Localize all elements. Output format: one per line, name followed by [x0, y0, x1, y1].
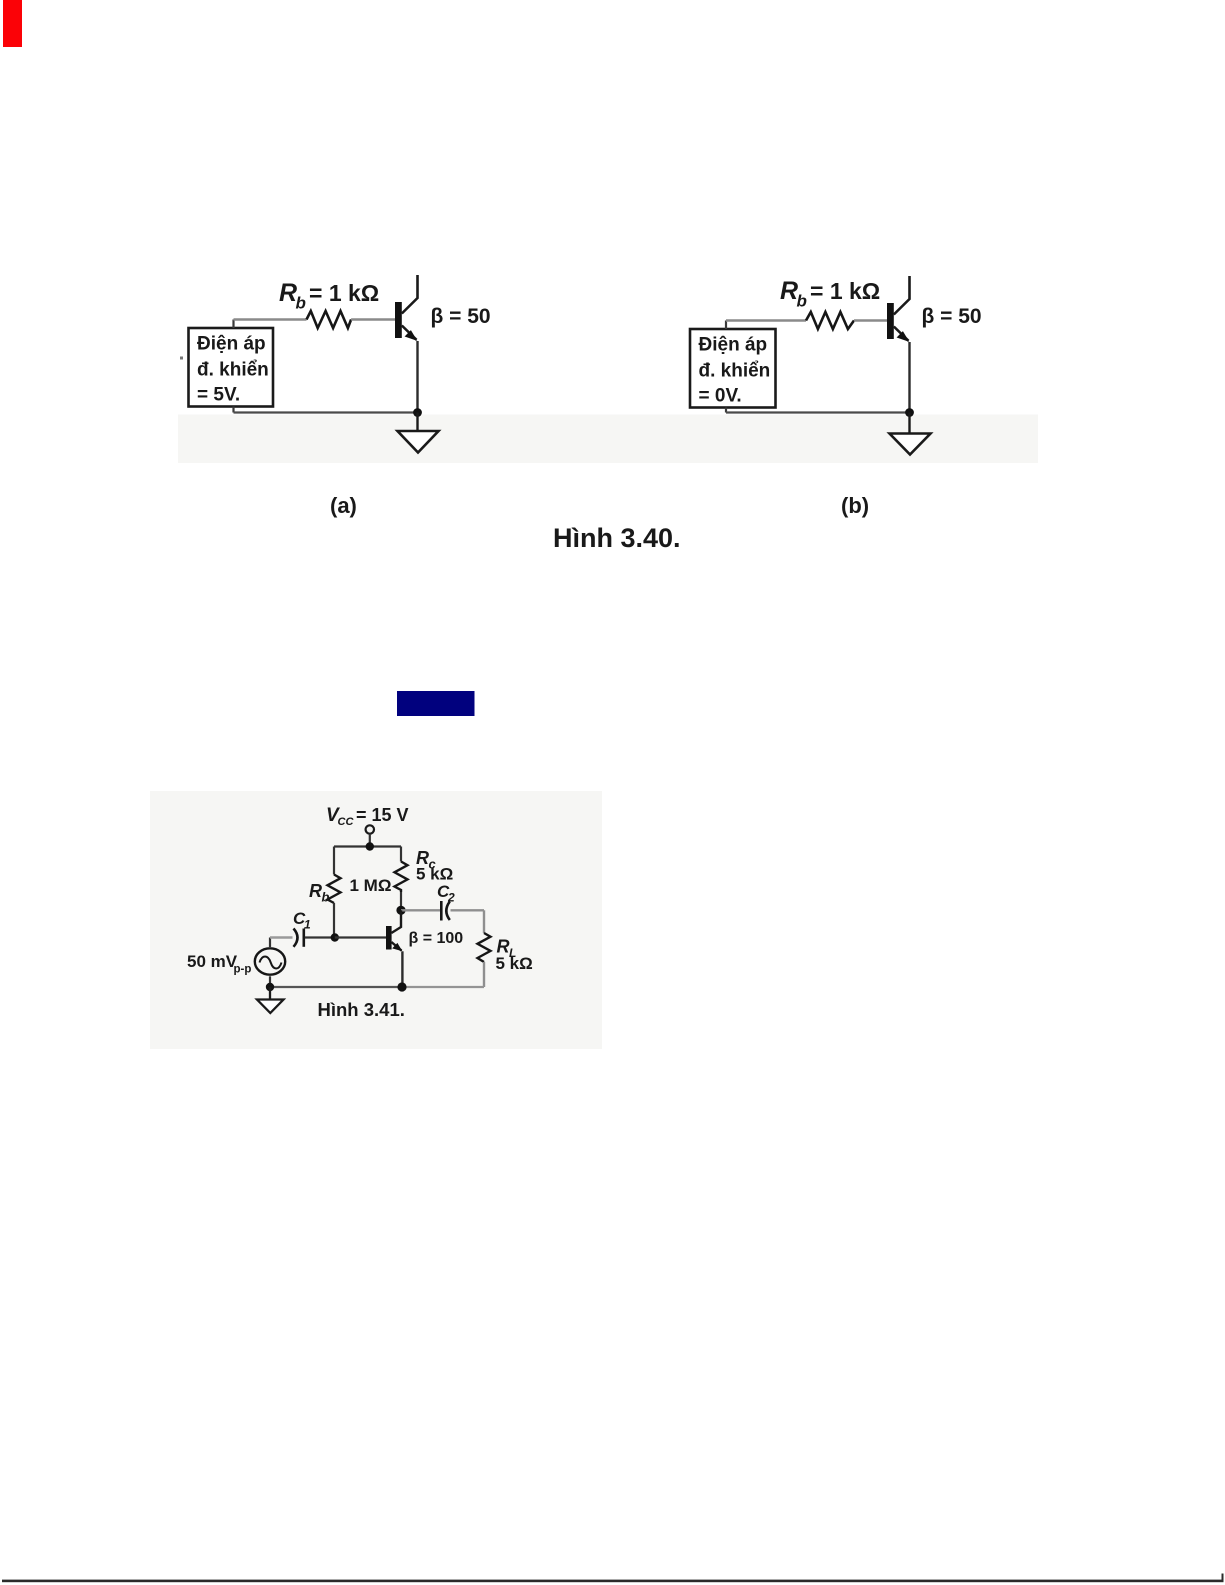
transistor Q (b) emitter lead with arrow: [894, 327, 910, 342]
svg-text:đ. khiển: đ. khiển: [699, 361, 771, 382]
label C2: [437, 882, 455, 905]
svg-text:β = 50: β = 50: [431, 305, 491, 328]
wire: box (a) to resistor Rb: [234, 318, 307, 320]
footer rule end tick: [1222, 1574, 1224, 1581]
wire: C2 to load corner: [451, 909, 485, 911]
svg-text:b: b: [296, 294, 306, 313]
svg-text:1 MΩ: 1 MΩ: [350, 876, 392, 895]
svg-text:2: 2: [447, 891, 455, 905]
svg-text:Hình 3.40.: Hình 3.40.: [553, 523, 681, 553]
wire: load corner down to RL: [483, 910, 485, 933]
source VS circle 50 mVp-p: [255, 948, 285, 974]
svg-text:R: R: [309, 881, 322, 901]
wire: source to C1: [270, 936, 293, 938]
control source box (b): Dien ap d. khien = 0V: [690, 329, 776, 408]
resistor RL: [478, 933, 491, 962]
wire: box (a) bottom stub: [232, 407, 234, 413]
junction: emitter ground node: [397, 982, 406, 991]
wire: box (b) top stub: [725, 321, 727, 330]
transistor Q2 NPN: base bar: [386, 926, 392, 950]
value label Rb = 1 kΩ (b): [780, 277, 880, 311]
wire: top rail: [334, 845, 401, 847]
svg-text:5 kΩ: 5 kΩ: [416, 865, 453, 884]
label Rb (fig 3.41): [309, 881, 330, 905]
junction: base node: [331, 933, 339, 941]
resistor Rb (b): [806, 312, 854, 329]
junction: top rail node: [366, 842, 374, 850]
ground (b): [890, 413, 931, 455]
scan background figure 3.41: [150, 791, 602, 1049]
wire: bottom return (b): [726, 411, 910, 413]
resistor Rb (fig 3.41): [328, 875, 341, 904]
wire: source top stub: [269, 938, 271, 948]
transistor Q1 (a) emitter lead with arrow: [402, 326, 418, 341]
svg-text:1: 1: [304, 918, 311, 932]
svg-text:(b): (b): [841, 493, 869, 518]
svg-text:(a): (a): [330, 493, 357, 518]
wire: collector node to C2: [401, 909, 440, 911]
svg-text:b: b: [322, 890, 330, 905]
wire: Rb (b) to Q2 base: [854, 319, 887, 321]
wire: base node to Q2 base: [335, 936, 386, 938]
label Rc: [416, 848, 437, 872]
wire: top rail to Rc: [400, 847, 402, 862]
label 50 mVp-p: [187, 952, 251, 976]
junction: collector node: [396, 906, 405, 915]
wire: Rb to base node: [333, 903, 335, 938]
ground (fig 3.41): [257, 987, 284, 1013]
junction: source ground node: [266, 983, 274, 991]
svg-text:Điện áp: Điện áp: [197, 334, 266, 355]
svg-text:Điện áp: Điện áp: [699, 335, 768, 356]
svg-text:R: R: [780, 277, 798, 305]
wire: Q emitter down to ground node (b): [908, 342, 910, 413]
wire: box (b) bottom stub: [725, 408, 727, 413]
svg-text:= 5V.: = 5V.: [197, 385, 240, 406]
svg-text:b: b: [797, 292, 807, 311]
wire: bottom rail right: [402, 986, 484, 988]
resistor Rc: [395, 862, 408, 893]
value label Rb = 1 kΩ (a): [279, 279, 379, 313]
red corner mark: [3, 0, 22, 47]
wire: top rail to Rb: [333, 847, 335, 875]
svg-text:p-p: p-p: [234, 964, 252, 976]
transistor Q2 emitter lead with arrow: [391, 942, 402, 951]
transistor Q2 collector lead: [391, 910, 401, 933]
capacitor C2: [441, 901, 450, 921]
svg-text:50 mV: 50 mV: [187, 952, 238, 971]
wire: source bottom stub: [269, 976, 271, 987]
wire: box (a) top stub: [232, 320, 234, 329]
transistor Q1 (a) NPN: base bar: [395, 302, 402, 338]
control source box (a): Dien ap d. khien = 5V: [189, 328, 274, 407]
VCC terminal circle: [366, 825, 374, 833]
junction dot (b): [905, 408, 914, 417]
wire: box (b) to resistor Rb: [726, 319, 806, 321]
label VCC = 15 V: [326, 805, 409, 828]
svg-text:5 kΩ: 5 kΩ: [496, 954, 533, 973]
svg-text:= 1 kΩ: = 1 kΩ: [810, 278, 880, 304]
svg-text:= 0V.: = 0V.: [699, 386, 742, 407]
transistor Q (b) NPN: base bar: [887, 303, 894, 339]
wire: RL to bottom rail: [483, 962, 485, 987]
resistor Rb (a): [307, 311, 352, 328]
svg-text:Hình 3.41.: Hình 3.41.: [318, 999, 405, 1020]
wire: bottom return (a): [234, 411, 418, 413]
svg-text:CC: CC: [338, 816, 355, 828]
ground (a): [398, 413, 439, 453]
junction dot (a): [413, 408, 422, 417]
transistor Q (b) collector lead: [894, 276, 910, 315]
wire: Q2 emitter down to bottom rail: [401, 951, 403, 987]
redaction blue bar: [397, 691, 475, 716]
transistor Q1 (a) collector lead: [402, 275, 418, 314]
svg-text:= 1 kΩ: = 1 kΩ: [309, 280, 379, 306]
wire: Rb (a) to Q1 base: [351, 318, 395, 320]
capacitor C1: [294, 929, 304, 947]
wire: Rc to collector node: [400, 892, 402, 910]
wire: C1 to base node: [305, 936, 335, 938]
wire: VCC terminal to top rail: [369, 834, 371, 847]
label C1: [293, 909, 311, 932]
svg-text:R: R: [279, 279, 297, 307]
svg-text:= 15 V: = 15 V: [356, 805, 409, 825]
scan background band figure 3.40: [178, 415, 1038, 464]
svg-text:β = 100: β = 100: [409, 930, 464, 947]
label RL: [497, 937, 517, 961]
footer rule: [2, 1580, 1224, 1583]
wire: bottom rail left: [270, 986, 402, 988]
wire: Q1 emitter down to ground node (a): [416, 341, 418, 413]
svg-text:đ. khiển: đ. khiển: [197, 360, 269, 381]
speckle dot left of box (a): [180, 357, 183, 360]
svg-text:β = 50: β = 50: [922, 305, 982, 328]
